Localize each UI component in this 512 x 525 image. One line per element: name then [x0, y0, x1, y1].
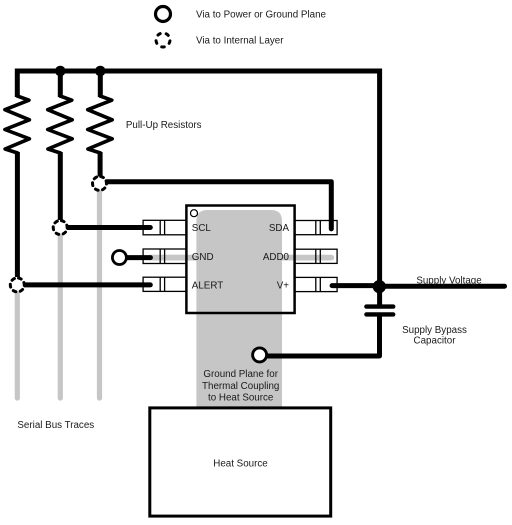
wire: capacitor to thermal via — [266, 316, 380, 356]
capacitor C1 bottom plate — [366, 312, 393, 316]
svg-text:Heat Source: Heat Source — [213, 458, 268, 469]
pad SDA — [295, 221, 337, 235]
legend: via to power or ground plane — [156, 7, 171, 22]
pad ALERT — [143, 277, 186, 291]
svg-text:Via to Internal Layer: Via to Internal Layer — [196, 35, 284, 46]
via to internal layer (ALERT) — [9, 277, 25, 293]
svg-text:to Heat Source: to Heat Source — [208, 392, 274, 403]
resistor R3 (SDA pull-up) — [88, 96, 113, 153]
pad SCL — [143, 220, 186, 235]
svg-text:Capacitor: Capacitor — [414, 335, 457, 346]
wire: V+ to supply rail — [332, 283, 377, 288]
svg-text:Supply Voltage: Supply Voltage — [416, 275, 482, 286]
resistor R2 (SCL pull-up) — [48, 96, 72, 153]
pad V+ — [295, 277, 337, 291]
svg-text:Via to Power or Ground Plane: Via to Power or Ground Plane — [196, 9, 327, 20]
pad ADD0 — [295, 249, 337, 263]
capacitor C1 top plate — [366, 304, 393, 308]
svg-text:Pull-Up Resistors: Pull-Up Resistors — [126, 120, 202, 131]
via to ground plane (GND) — [112, 251, 126, 265]
svg-text:ALERT: ALERT — [192, 281, 223, 292]
wire: GND stub — [120, 255, 150, 260]
via to ground plane (thermal) — [253, 348, 267, 362]
svg-text:ADD0: ADD0 — [263, 252, 290, 263]
wire: R3 bottom lead — [98, 152, 103, 177]
via to internal layer (SDA) — [91, 175, 107, 191]
wire: SCL route — [61, 225, 150, 230]
wire: R2 top stub — [58, 71, 63, 97]
wire: top bus + right supply vertical — [17, 71, 379, 305]
legend: via to internal layer — [155, 32, 171, 48]
wire: R2 bottom lead — [58, 152, 63, 220]
wire: ALERT route — [18, 282, 150, 287]
wire: supply voltage line — [380, 284, 505, 289]
svg-text:SCL: SCL — [192, 223, 212, 234]
junction at R3 top — [95, 66, 106, 77]
resistor R1 (ALERT pull-up) — [5, 96, 30, 153]
svg-text:SDA: SDA — [269, 223, 290, 234]
via to internal layer (SCL) — [52, 219, 68, 235]
IC pin-1 marker — [191, 210, 198, 217]
pad GND — [143, 249, 186, 264]
serial bus trace SDA (gray vertical) — [97, 191, 102, 398]
serial bus trace ALERT (gray vertical) — [15, 293, 20, 399]
heat source block — [150, 408, 331, 516]
svg-text:V+: V+ — [277, 281, 290, 292]
junction at V+ / supply — [373, 280, 386, 293]
serial bus trace SCL (gray vertical) — [58, 235, 63, 398]
wire: R3 top stub — [98, 71, 103, 97]
wire: R1 bottom lead — [15, 152, 20, 277]
GND gray trace (left) — [150, 255, 198, 261]
junction at R2 top — [55, 66, 66, 77]
svg-text:Thermal Coupling: Thermal Coupling — [202, 381, 279, 392]
svg-text:Ground Plane for: Ground Plane for — [203, 369, 278, 380]
wire: SDA route (dashed via to SDA pad) — [100, 182, 331, 229]
ground plane thermal pour (gray) — [196, 210, 282, 408]
svg-text:Serial Bus Traces: Serial Bus Traces — [17, 420, 94, 431]
svg-text:GND: GND — [192, 252, 214, 263]
IC U1 body — [186, 206, 294, 314]
ADD0 gray trace (right) — [281, 255, 331, 261]
